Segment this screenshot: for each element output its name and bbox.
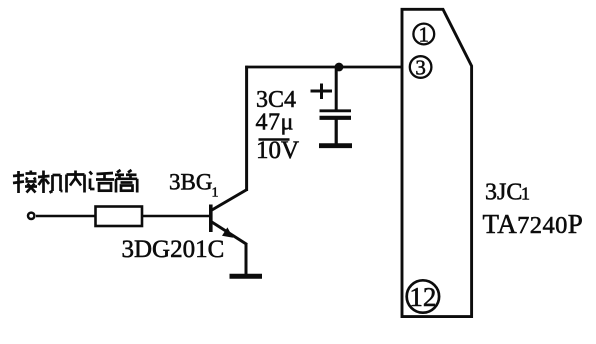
label 3BG1 (transistor designator): [169, 170, 219, 201]
polarity plus sign of C 3C4: [311, 90, 333, 93]
ground bar: [230, 274, 263, 279]
transistor Q1 collector diagonal: [211, 190, 247, 211]
svg-text:3BG: 3BG: [169, 170, 212, 195]
resistor R (mic series resistor): [96, 207, 143, 227]
svg-text:12: 12: [409, 282, 436, 312]
pin 12 (circled): [407, 280, 439, 312]
node: junction dot on top rail: [335, 63, 344, 72]
input terminal (open circle): [28, 213, 34, 219]
fraction line of capacitor value: [259, 138, 290, 141]
label: Chinese text "microphone inside handset": [13, 170, 137, 193]
capacitor C 3C4 bottom plate: [320, 116, 352, 120]
transistor Q1 3BG1 base bar: [209, 205, 213, 233]
char 内: [67, 171, 85, 193]
char 机: [38, 171, 63, 194]
wire: collector up to top rail: [245, 66, 248, 191]
char 接: [13, 171, 37, 194]
svg-text:1: 1: [521, 184, 530, 204]
char 话: [90, 172, 115, 191]
svg-text:47μ: 47μ: [256, 110, 294, 136]
wire: input terminal to resistor R: [36, 215, 96, 218]
svg-text:TA7240P: TA7240P: [483, 209, 584, 239]
svg-text:1: 1: [212, 186, 219, 201]
wire: emitter down to ground: [245, 243, 248, 275]
pin 3 (circled): [410, 56, 432, 78]
transistor Q1 emitter arrowhead: [222, 227, 233, 237]
pin 1 (circled): [413, 24, 434, 45]
capacitor C 3C4 top plate: [320, 109, 352, 112]
capacitor negative terminal bar: [319, 143, 352, 148]
char 筒: [115, 170, 137, 193]
capacitor C 3C4 top lead: [335, 67, 338, 110]
svg-text:10V: 10V: [256, 137, 299, 164]
svg-text:3: 3: [415, 56, 426, 80]
label 3JC1 (IC designator): [485, 180, 530, 206]
wire: top rail from collector to IC pin 3: [245, 66, 402, 69]
svg-text:3JC: 3JC: [485, 180, 522, 206]
capacitor C 3C4 bottom lead: [335, 119, 338, 144]
svg-text:1: 1: [419, 23, 430, 47]
wire: resistor to transistor base: [142, 215, 210, 218]
transistor Q1 emitter diagonal: [211, 222, 247, 245]
IC U1 3JC1 TA7240P body outline: [402, 9, 472, 316]
svg-text:3DG201C: 3DG201C: [122, 236, 225, 263]
